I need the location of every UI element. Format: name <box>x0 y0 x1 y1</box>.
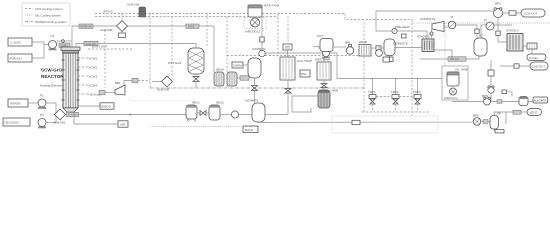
svg-text:WATER: WATER <box>10 102 21 106</box>
filter F1 dark trap on header <box>139 7 146 17</box>
node small box P-01 <box>300 70 310 77</box>
valve tick on gas out <box>514 64 519 68</box>
wire to pump <box>220 114 231 116</box>
svg-text:SCW1: SCW1 <box>89 57 98 61</box>
wire vent line <box>494 112 513 116</box>
svg-text:Heating Elements: Heating Elements <box>40 84 64 88</box>
valve box D1 top <box>502 90 512 97</box>
vessel BU <box>474 34 487 57</box>
node stream capsule after diamond <box>67 112 79 116</box>
node box under gauge <box>383 57 390 62</box>
svg-text:AIRCOOL: AIRCOOL <box>444 96 458 100</box>
vessel HEXB <box>359 40 371 56</box>
svg-text:HEX2: HEX2 <box>216 101 224 105</box>
node stream label GRS <box>186 24 199 29</box>
wire bottom product line <box>66 114 187 116</box>
vessel D1 right <box>519 97 528 106</box>
svg-text:ALM-004: ALM-004 <box>127 3 140 7</box>
svg-text:PRE-HEAT: PRE-HEAT <box>395 25 410 29</box>
wire BP2 to out <box>503 12 521 14</box>
valve bowtie between HEX <box>197 111 209 116</box>
separator S2 vessel <box>245 99 265 123</box>
svg-text:HEXB: HEXB <box>359 40 367 44</box>
svg-text:WTR-TANK: WTR-TANK <box>264 4 280 8</box>
wire water dashdot header y88 <box>150 87 365 89</box>
wire TRV stubs <box>372 79 374 95</box>
valve box on riser <box>488 70 494 76</box>
node terminal VENT <box>527 109 542 116</box>
wire dotted line bottom <box>150 126 258 128</box>
svg-text:STAGE-2: STAGE-2 <box>506 29 519 33</box>
wire dashed stream y56 <box>227 55 364 57</box>
node terminal CO2-OUT <box>521 9 545 17</box>
wire header drop x227 <box>226 17 228 89</box>
wire S2 right out <box>265 114 288 116</box>
node box above DEWESTE <box>387 56 394 62</box>
wire cooling header y13 <box>95 13 345 15</box>
svg-text:STAGE-1: STAGE-1 <box>417 35 430 39</box>
svg-text:REACTOR: REACTOR <box>41 74 64 79</box>
svg-text:CHEM: CHEM <box>233 64 242 68</box>
heat exchanger WET TANK <box>315 58 331 81</box>
svg-text:COMPR-01: COMPR-01 <box>420 17 436 21</box>
wire water feed <box>28 102 38 104</box>
node water tank WTR-TANK <box>248 4 280 18</box>
valve diamond ALM-006 <box>152 76 173 87</box>
wire header drop x207 <box>206 14 208 49</box>
wire feed joins <box>32 42 44 58</box>
svg-text:SCW-GrO: SCW-GrO <box>41 68 63 73</box>
svg-text:BALB: BALB <box>245 128 253 132</box>
wire right riser x491 <box>490 60 492 87</box>
svg-text:P2: P2 <box>40 94 44 98</box>
reactor R1 vessel <box>61 47 80 112</box>
wire control border x412 <box>411 20 413 117</box>
wire tank down line <box>262 17 322 53</box>
valve capsule after K1 <box>491 100 520 104</box>
svg-text:ALM-002: ALM-002 <box>53 121 66 125</box>
wire stage1 outlet <box>434 50 452 59</box>
gauge M1 <box>444 15 456 29</box>
wire water return y78 <box>330 53 442 79</box>
node suction circle <box>430 32 433 35</box>
wire top gas line <box>376 10 493 12</box>
wire TRV top dashed links <box>376 96 392 98</box>
pump BP4 eared on riser <box>488 86 494 102</box>
node stream label CYLT <box>420 56 479 61</box>
wire valve manifold dashed <box>362 111 430 113</box>
svg-text:BB1: BB1 <box>115 81 121 85</box>
svg-text:SCW4: SCW4 <box>89 84 98 88</box>
svg-text:OIL TANK: OIL TANK <box>455 68 468 72</box>
node stream label BURT-OUT <box>88 45 132 50</box>
svg-text:TRV2: TRV2 <box>391 90 399 94</box>
check valve dot <box>62 40 65 43</box>
wire header drop x172 <box>171 17 173 77</box>
wire P3 out <box>46 122 56 124</box>
wire feedwater chain line <box>313 46 319 48</box>
pump BP5 <box>473 114 481 126</box>
svg-text:B-BUS: B-BUS <box>102 105 111 109</box>
svg-text:ALM-006: ALM-006 <box>157 88 170 92</box>
valve capsule after BP5 <box>481 120 490 124</box>
actuator box under diamond <box>119 32 126 38</box>
heat exchanger H2O TRAP <box>280 57 295 80</box>
svg-text:WTR-C: WTR-C <box>103 10 114 14</box>
compressor COMPR-01 <box>420 17 444 32</box>
separator SEP vessel <box>490 112 501 130</box>
pump BP2 top right <box>493 2 502 18</box>
wire SEP bottom loop <box>494 112 506 133</box>
svg-text:AIRCOOL1: AIRCOOL1 <box>245 30 261 34</box>
svg-text:SCW3: SCW3 <box>89 75 98 79</box>
node stream capsule right of HEXA <box>237 76 249 80</box>
svg-text:WATER Cooling system: WATER Cooling system <box>35 20 67 24</box>
wire oil drop to chamber <box>444 23 446 66</box>
svg-text:SCW2: SCW2 <box>89 66 98 70</box>
svg-text:PUR-SLY: PUR-SLY <box>10 57 23 61</box>
wire wet tank feed <box>323 57 325 62</box>
control valve TRV3 <box>413 90 421 112</box>
svg-text:HEXA: HEXA <box>216 68 224 72</box>
control valve TRV1 <box>368 90 376 112</box>
valve under H2O TRAP <box>285 80 291 115</box>
wire bottom long line <box>259 122 474 123</box>
node feed box C-SLRY <box>8 38 32 46</box>
svg-text:HOT: HOT <box>317 34 324 38</box>
svg-text:Conde.: Conde. <box>529 56 539 60</box>
chamber OIL TANK <box>442 66 468 100</box>
adsorber HEXA column 1 <box>214 72 224 86</box>
svg-text:ALM-005: ALM-005 <box>100 28 113 32</box>
pump P4 <box>231 111 238 118</box>
heat exchanger STAGE-1 <box>422 39 434 52</box>
control valve TRV2 <box>391 90 399 112</box>
pump K1 compressor bottom right <box>452 94 491 105</box>
node feed box H2O2-SOL <box>3 118 30 126</box>
svg-text:TRV3: TRV3 <box>413 90 421 94</box>
legend box <box>22 3 70 26</box>
svg-text:HEX1: HEX1 <box>192 101 200 105</box>
condenser XV1 vessel <box>188 48 204 74</box>
wire BP2 down <box>497 18 499 25</box>
valve on tank line <box>260 37 264 42</box>
wire HEM loop <box>292 96 318 112</box>
svg-text:H2O2/SOL: H2O2/SOL <box>5 121 20 125</box>
svg-text:SP: SP <box>497 112 501 116</box>
node junction dot <box>129 114 131 116</box>
wire header drop x105 <box>104 30 106 88</box>
svg-text:TRV1: TRV1 <box>368 90 376 94</box>
heater HEM vessel <box>318 89 339 109</box>
wire oil header corner <box>345 14 412 20</box>
node feedwater box with marks <box>283 44 292 57</box>
wire suction link <box>431 35 433 39</box>
svg-text:DEWESTE: DEWESTE <box>393 42 408 46</box>
gauge PI <box>484 18 494 30</box>
separator S1 vessel <box>248 58 261 78</box>
wire line B reactor gas to condenser <box>76 44 84 48</box>
wire faint section line <box>130 100 195 102</box>
adsorber HEXA column 2 <box>227 72 237 86</box>
node terminal GAS-OUT <box>530 62 548 70</box>
svg-text:AIR: AIR <box>120 123 126 127</box>
svg-text:BP5: BP5 <box>473 114 479 118</box>
wire down to stage2 <box>498 25 507 42</box>
cooler HEX2 vessel <box>209 101 224 121</box>
svg-text:BP2: BP2 <box>495 2 501 6</box>
wire BU top to line <box>481 25 512 38</box>
node faint section boundary bottom <box>332 116 438 133</box>
valve on riser <box>496 31 500 35</box>
svg-text:VENT: VENT <box>530 111 538 115</box>
valve after HEXB <box>371 46 386 50</box>
node component on long line <box>352 120 360 124</box>
wire header drop x150 <box>149 14 151 89</box>
wire pump to S2 <box>239 114 252 116</box>
wire gas out line <box>500 65 530 67</box>
wire reactor bottom to line <box>69 112 71 115</box>
wire P1 to reactor <box>57 40 73 42</box>
node chem box CHEM <box>232 62 248 68</box>
pump P1 <box>49 34 57 50</box>
valve capsule vent <box>513 110 521 114</box>
svg-text:CO2 Cooling system: CO2 Cooling system <box>35 7 63 11</box>
vessel DEWESTE <box>384 39 422 56</box>
svg-text:P3: P3 <box>40 113 44 117</box>
pump P2 <box>38 94 46 109</box>
wire corner to preheat <box>376 11 392 31</box>
wire gauge to vessel <box>456 25 477 29</box>
node feed box WATER <box>8 99 28 107</box>
svg-text:BPN: BPN <box>482 94 488 98</box>
node feed box PUR-SLRY <box>8 54 32 62</box>
expander BB1 horn <box>99 78 150 95</box>
node stream label GrO-05 <box>84 41 98 46</box>
svg-text:WET/TANK: WET/TANK <box>315 58 330 62</box>
node stream label SCW-GAS <box>79 24 93 29</box>
svg-text:PGT-GAS: PGT-GAS <box>168 61 181 65</box>
svg-text:ALKOMTR: ALKOMTR <box>534 99 547 103</box>
svg-text:H2O TRAP: H2O TRAP <box>297 59 312 63</box>
svg-text:SOMMTS: SOMMTS <box>252 47 265 51</box>
gauge PRE-HEAT <box>392 25 427 39</box>
heat exchanger STAGE-2 <box>507 34 523 52</box>
pump above S1 <box>252 47 265 57</box>
node box BALBS <box>243 126 258 133</box>
pump P-C1 on water line <box>318 46 331 59</box>
valve diamond ALM-002 <box>53 109 66 125</box>
wire cooling header y16 <box>95 16 278 18</box>
svg-text:OIL Cooling system: OIL Cooling system <box>35 14 62 18</box>
node box AIR <box>74 112 128 127</box>
valve V-BU <box>475 29 479 38</box>
valve under WET TANK <box>321 80 327 90</box>
pump P3 <box>38 113 46 128</box>
svg-text:P01: P01 <box>301 72 307 76</box>
svg-text:PI: PI <box>484 18 487 22</box>
svg-text:HEM: HEM <box>332 89 339 93</box>
svg-text:GrO-05: GrO-05 <box>86 42 96 46</box>
pump BP1 <box>345 41 354 55</box>
svg-text:OIL/LP: OIL/LP <box>450 57 459 61</box>
valve under S1 <box>252 78 258 103</box>
valve under condenser <box>193 74 199 88</box>
node small hx box right <box>523 43 537 49</box>
svg-text:BP1: BP1 <box>345 41 351 45</box>
node label GrO1 <box>59 43 70 48</box>
wire reactor thermocouple taps <box>78 57 101 97</box>
svg-text:WTR-05: WTR-05 <box>81 25 92 29</box>
wire header drop x288 <box>287 17 289 44</box>
wire control enclosure dashed vertical <box>363 23 365 113</box>
node terminal Conde <box>527 49 546 61</box>
fan AIRCOOL1 <box>244 18 266 34</box>
wire chain <box>333 46 346 48</box>
cooler HEX1 vessel <box>186 101 200 122</box>
svg-text:GRS: GRS <box>188 25 195 29</box>
wire header drop x278 <box>277 14 279 56</box>
valve diamond ALM-005 <box>117 14 128 32</box>
svg-text:GAS-OUT: GAS-OUT <box>532 65 546 69</box>
svg-text:P1: P1 <box>51 34 55 38</box>
svg-text:C-SLRY: C-SLRY <box>11 41 22 45</box>
vessel HOT <box>317 34 333 52</box>
svg-text:SOMMTS: SOMMTS <box>245 99 258 103</box>
svg-text:CO2-OUT: CO2-OUT <box>524 12 538 16</box>
valve capsule on BP2 line <box>509 11 516 15</box>
gauge TI mid <box>376 46 383 56</box>
node terminal ALKOMTR <box>528 97 548 103</box>
node box B-BUS <box>78 103 114 109</box>
wire line A from reactor top <box>72 26 214 72</box>
